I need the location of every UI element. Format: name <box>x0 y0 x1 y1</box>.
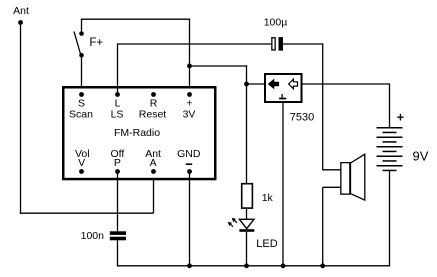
wire antenna vertical <box>20 23 22 214</box>
svg-text:+: + <box>397 111 404 125</box>
node antenna terminal dot <box>18 20 23 25</box>
svg-text:1k: 1k <box>262 192 274 204</box>
svg-text:Ant: Ant <box>13 5 29 17</box>
svg-text:Scan: Scan <box>69 109 93 121</box>
node rail junction speaker <box>320 263 325 268</box>
wire capacitor C1 to speaker feed <box>283 43 323 45</box>
wire antenna horizontal to pin A <box>20 212 154 214</box>
svg-text:LED: LED <box>256 238 277 250</box>
speaker LS1 <box>341 154 365 200</box>
pin P dot <box>115 169 120 174</box>
IC U1 FM-Radio box <box>63 87 215 179</box>
resistor R1 1k <box>242 184 253 208</box>
pin minus dot <box>187 169 192 174</box>
svg-text:100µ: 100µ <box>264 16 288 28</box>
pin L dot <box>115 92 120 97</box>
wire bottom ground rail <box>117 265 390 267</box>
LED emission arrows <box>228 218 237 227</box>
wire battery top <box>389 84 391 128</box>
node rail junction LED <box>244 263 249 268</box>
svg-text:FM-Radio: FM-Radio <box>114 127 160 139</box>
wire switch top up <box>81 19 83 34</box>
wire speaker bottom terminal <box>323 186 341 188</box>
svg-text:V: V <box>78 157 85 169</box>
svg-text:S: S <box>78 97 85 109</box>
svg-text:Reset: Reset <box>139 109 167 121</box>
wire pin L up <box>117 43 119 94</box>
pin + dot <box>187 92 192 97</box>
wire speaker bottom vertical to rail <box>322 187 324 265</box>
node rail junction 7530 ground <box>281 263 286 268</box>
regulator outline arrow <box>289 79 298 89</box>
wire pin minus down to rail <box>189 172 191 266</box>
pin S dot <box>79 92 84 97</box>
svg-text:9V: 9V <box>413 149 429 164</box>
wire capacitor C2 down to rail <box>117 240 119 265</box>
node junction on 3V line <box>187 64 192 69</box>
wire branch vertical down to resistor <box>246 65 248 183</box>
svg-text:L: L <box>115 97 121 109</box>
wire top horizontal <box>81 18 190 20</box>
wire LED down to rail <box>246 232 248 266</box>
pin V dot <box>79 169 84 174</box>
battery BT1 9V <box>377 128 403 171</box>
wire resistor to LED <box>246 209 248 220</box>
regulator internal ground symbol <box>279 94 286 99</box>
capacitor C1 100u electrolytic <box>272 37 283 51</box>
wire 7530 output <box>303 83 391 85</box>
svg-text:GND: GND <box>177 148 201 160</box>
wire 7530 input <box>247 83 266 85</box>
pin R dot <box>151 92 156 97</box>
wire vertical to pin +3V <box>189 19 191 94</box>
wire pin P down to capacitor C2 <box>117 172 119 232</box>
node junction at 7530 input <box>244 82 249 87</box>
wire speaker feed vertical <box>322 44 324 170</box>
pin A dot <box>151 169 156 174</box>
wire 7530 ground down <box>282 102 284 266</box>
svg-text:3V: 3V <box>183 109 196 121</box>
switch F+ <box>74 31 84 57</box>
regulator U2 7530 box <box>265 74 302 102</box>
wire branch horizontal from 3V line <box>190 65 248 67</box>
LED D1 <box>239 219 254 232</box>
svg-text:P: P <box>114 157 121 169</box>
wire pin A vertical <box>153 172 155 214</box>
svg-text:R: R <box>150 97 158 109</box>
capacitor C2 100n <box>110 231 126 240</box>
svg-text:F+: F+ <box>89 37 103 49</box>
svg-text:LS: LS <box>111 109 124 121</box>
wire speaker top terminal <box>323 169 341 171</box>
pin label minus <box>186 163 192 165</box>
svg-text:100n: 100n <box>81 230 105 242</box>
wire LS horizontal to capacitor C1 <box>118 43 272 45</box>
svg-text:A: A <box>150 157 157 169</box>
svg-text:7530: 7530 <box>290 112 314 124</box>
svg-text:+: + <box>186 97 192 109</box>
wire battery bottom <box>389 170 391 266</box>
regulator solid arrow <box>268 79 279 90</box>
node rail junction minus <box>187 263 192 268</box>
wire switch bottom to pin S <box>81 55 83 94</box>
